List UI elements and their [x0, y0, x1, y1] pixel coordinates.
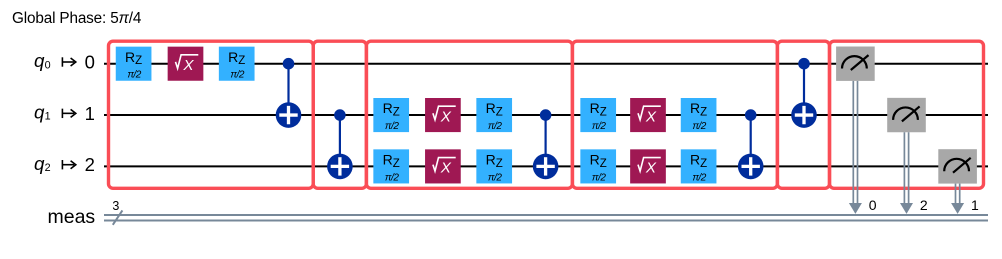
svg-text:π/2: π/2 — [488, 121, 502, 132]
classical bundle slash and width label 3 — [112, 199, 122, 225]
svg-text:Z: Z — [393, 107, 400, 119]
svg-text:Z: Z — [600, 107, 607, 119]
qubit wire q0 — [104, 63, 988, 65]
CNOT CX5 control q0 target q1 — [791, 58, 817, 128]
svg-text:R: R — [486, 152, 496, 168]
svg-text:Z: Z — [700, 107, 707, 119]
svg-text:Z: Z — [700, 158, 707, 170]
wire label meas — [48, 206, 96, 228]
svg-text:q: q — [34, 101, 45, 122]
svg-text:Global Phase: 5π/4: Global Phase: 5π/4 — [12, 10, 142, 27]
svg-text:R: R — [228, 49, 238, 65]
qubit wire q2 — [104, 165, 988, 167]
gate RZ(pi/2) q2 col10 — [580, 149, 616, 183]
gate RZ(pi/2) q0 col3 — [219, 47, 255, 81]
svg-text:meas: meas — [48, 206, 96, 228]
svg-text:π/2: π/2 — [592, 121, 606, 132]
measure M2 q2 -> clbit 1 — [938, 149, 979, 214]
svg-text:Z: Z — [496, 158, 503, 170]
svg-text:2: 2 — [45, 162, 51, 174]
svg-text:Z: Z — [393, 158, 400, 170]
gate sqrt-X q1 col7 — [425, 98, 461, 132]
svg-text:3: 3 — [112, 199, 119, 213]
svg-text:2: 2 — [920, 197, 928, 213]
svg-text:X: X — [440, 108, 452, 125]
wire label q2 — [34, 153, 95, 175]
gate RZ(pi/2) q1 col10 — [580, 98, 616, 132]
svg-text:R: R — [383, 152, 393, 168]
svg-text:π/2: π/2 — [692, 172, 706, 183]
svg-text:Z: Z — [600, 158, 607, 170]
svg-text:π/2: π/2 — [127, 70, 141, 81]
gate RZ(pi/2) q2 col8 — [476, 149, 512, 183]
svg-text:R: R — [590, 100, 600, 116]
gate RZ(pi/2) q2 col12 — [681, 149, 717, 183]
global phase label — [12, 10, 142, 27]
gate RZ(pi/2) q2 col6 — [373, 149, 409, 183]
svg-text:Z: Z — [135, 55, 142, 67]
box B5 (red group) — [777, 41, 829, 188]
box B6 (red group) — [830, 41, 984, 188]
svg-text:R: R — [590, 152, 600, 168]
svg-text:R: R — [486, 100, 496, 116]
svg-text:π/2: π/2 — [488, 172, 502, 183]
gate sqrt-X q2 col7 — [425, 149, 461, 183]
CNOT CX2 control q1 target q2 — [327, 109, 353, 179]
gate sqrt-X q1 col11 — [630, 98, 666, 132]
box B1 (red group) — [109, 41, 314, 188]
box B4 (red group) — [572, 41, 777, 188]
svg-text:0: 0 — [869, 197, 877, 213]
svg-text:1: 1 — [971, 197, 979, 213]
svg-text:1: 1 — [45, 111, 51, 123]
svg-text:X: X — [645, 160, 657, 177]
svg-text:X: X — [440, 160, 452, 177]
svg-text:π/2: π/2 — [592, 172, 606, 183]
svg-text:R: R — [383, 100, 393, 116]
CNOT CX1 control q0 target q1 — [276, 58, 302, 128]
svg-text:π/2: π/2 — [230, 70, 244, 81]
measure M0 q0 -> clbit 0 — [836, 47, 877, 214]
svg-text:1: 1 — [85, 103, 95, 124]
classical wire meas (double line) — [104, 215, 988, 221]
svg-text:q: q — [34, 50, 45, 71]
wire label q0 — [34, 50, 95, 72]
qubit wire q1 — [104, 114, 988, 116]
box B2 (red group) — [313, 41, 366, 188]
CNOT CX4 control q1 target q2 — [738, 109, 764, 179]
svg-text:π/2: π/2 — [692, 121, 706, 132]
measure M1 q1 -> clbit 2 — [887, 98, 928, 214]
svg-text:R: R — [690, 152, 700, 168]
svg-text:R: R — [125, 49, 135, 65]
wire label q1 — [34, 101, 95, 123]
gate RZ(pi/2) q1 col8 — [476, 98, 512, 132]
box B3 (red group) — [366, 41, 572, 188]
svg-text:0: 0 — [85, 52, 95, 73]
gate sqrt-X q2 col11 — [630, 149, 666, 183]
svg-text:q: q — [34, 153, 45, 174]
gate RZ(pi/2) q1 col12 — [681, 98, 717, 132]
svg-text:Z: Z — [496, 107, 503, 119]
svg-text:Z: Z — [238, 55, 245, 67]
gate sqrt-X q0 col2 — [168, 47, 204, 81]
svg-text:R: R — [690, 100, 700, 116]
svg-text:π/2: π/2 — [385, 121, 399, 132]
svg-text:X: X — [182, 57, 194, 74]
svg-text:X: X — [645, 108, 657, 125]
gate RZ(pi/2) q1 col6 — [373, 98, 409, 132]
svg-text:0: 0 — [45, 59, 51, 71]
svg-text:π/2: π/2 — [385, 172, 399, 183]
CNOT CX3 control q1 target q2 — [533, 109, 559, 179]
gate RZ(pi/2) q0 col1 — [116, 47, 152, 81]
svg-text:2: 2 — [85, 154, 95, 175]
